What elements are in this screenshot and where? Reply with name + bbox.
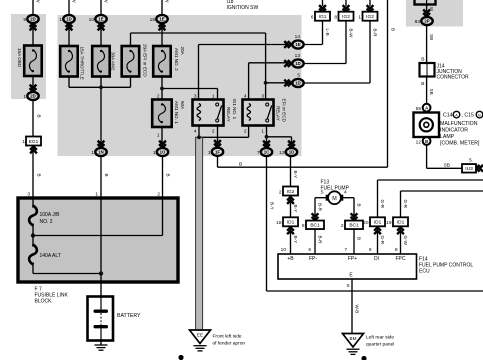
svg-text:1D: 1D [295,61,301,66]
svg-text:15A OBD: 15A OBD [17,48,22,68]
svg-text:55: 55 [416,106,422,112]
svg-text:1: 1 [59,17,62,23]
svg-text:3: 3 [27,192,30,198]
svg-text:EFI or ECD: EFI or ECD [281,99,286,123]
svg-text:1: 1 [23,94,26,100]
svg-text:2D: 2D [30,94,36,99]
svg-text:20A: 20A [180,47,185,56]
svg-text:1E: 1E [295,42,300,47]
svg-text:IG1: IG1 [319,14,327,20]
svg-text:ID1: ID1 [287,220,295,226]
svg-text:FP-: FP- [309,256,317,262]
svg-text:B: B [239,161,242,167]
svg-text:12: 12 [416,140,422,146]
svg-text:+B: +B [287,256,294,262]
svg-text:5: 5 [297,73,300,79]
svg-text:2: 2 [157,94,160,100]
svg-text:M: M [332,196,337,202]
svg-text:RELAY: RELAY [275,106,280,121]
svg-text:W: W [429,7,434,11]
svg-text:BM: BM [350,336,357,341]
svg-text:G-R: G-R [380,236,385,245]
svg-text:2: 2 [157,192,160,198]
svg-text:of fender apron: of fender apron [213,340,246,346]
svg-text:1E: 1E [98,17,103,22]
svg-text:6: 6 [311,15,314,21]
svg-text:NO. 2: NO. 2 [40,219,53,225]
svg-text:1N: 1N [98,150,104,155]
svg-text:1D: 1D [295,81,301,86]
svg-text:BC1: BC1 [349,223,359,229]
svg-text:1O: 1O [160,150,166,155]
svg-text:IG2: IG2 [342,14,350,20]
svg-text:1D: 1D [66,17,72,22]
svg-text:B-R: B-R [317,236,322,245]
svg-text:4: 4 [244,94,247,100]
svg-text:5: 5 [347,283,350,289]
svg-text:L-B: L-B [325,29,330,36]
svg-text:8: 8 [302,223,305,229]
svg-text:IU3: IU3 [465,166,473,172]
svg-text:B: B [421,81,424,87]
svg-text:BC1: BC1 [310,223,320,229]
svg-text:B: B [421,57,424,63]
svg-text:W: W [165,0,170,3]
svg-text:1D: 1D [289,150,295,155]
svg-text:1: 1 [22,139,25,145]
svg-text:B-R: B-R [372,29,377,38]
svg-text:1: 1 [261,129,264,135]
svg-text:C14: C14 [443,113,453,119]
svg-text:B: B [166,174,171,177]
svg-text:W-B: W-B [355,305,360,314]
svg-text:, C15: , C15 [462,113,475,119]
svg-text:4: 4 [344,189,347,195]
svg-text:IGNITION SW: IGNITION SW [227,5,259,11]
svg-text:B-R: B-R [317,203,322,212]
svg-text:G-W: G-W [403,236,408,246]
svg-text:CONNECTOR: CONNECTOR [437,75,470,81]
svg-text:B: B [478,112,481,117]
svg-text:2P: 2P [424,19,429,24]
svg-text:20A EFI or ECD: 20A EFI or ECD [143,44,148,77]
svg-text:EG1: EG1 [29,139,39,145]
svg-text:3: 3 [261,94,264,100]
svg-text:FP+: FP+ [348,256,357,262]
svg-text:7: 7 [344,247,347,253]
svg-text:2: 2 [341,223,344,229]
svg-text:1: 1 [95,192,98,198]
svg-text:10: 10 [281,247,287,253]
svg-text:A: A [425,106,428,111]
svg-text:6: 6 [308,247,311,253]
svg-text:18: 18 [276,220,282,226]
svg-text:15A THROTTLE: 15A THROTTLE [80,47,85,80]
svg-text:1: 1 [212,94,215,100]
svg-text:EE: EE [197,333,203,338]
svg-text:G-R: G-R [380,200,385,209]
svg-text:AM1 NO. 1: AM1 NO. 1 [174,101,179,124]
svg-text:30A AM2: 30A AM2 [111,52,116,71]
svg-text:1: 1 [157,133,160,139]
svg-text:W: W [104,0,109,3]
svg-text:IG1 NO. 1: IG1 NO. 1 [232,99,237,120]
svg-text:10: 10 [89,17,95,23]
svg-text:SB: SB [444,163,450,169]
svg-text:LAMP: LAMP [440,134,455,140]
svg-text:quarter panel: quarter panel [366,342,394,348]
svg-text:1: 1 [91,150,94,156]
svg-text:3: 3 [194,94,197,100]
svg-text:BLOCK: BLOCK [35,299,53,305]
svg-text:1E: 1E [159,17,164,22]
svg-text:1C: 1C [264,150,270,155]
svg-text:B: B [37,174,42,177]
svg-text:B: B [104,174,109,177]
svg-text:1: 1 [358,15,361,21]
svg-text:2: 2 [279,189,282,195]
svg-text:IG2: IG2 [287,189,295,195]
svg-text:SB: SB [429,34,434,40]
svg-text:B-W: B-W [348,29,353,39]
svg-text:13: 13 [295,53,301,59]
svg-text:SB: SB [429,89,434,95]
svg-text:83: 83 [415,19,421,25]
svg-text:IG2: IG2 [366,14,374,20]
svg-text:2D: 2D [30,17,36,22]
svg-text:B: B [356,204,361,207]
svg-text:AM1 NO. 2: AM1 NO. 2 [174,48,179,71]
svg-text:140A ALT: 140A ALT [40,253,61,259]
svg-text:Left rear side: Left rear side [366,335,394,341]
svg-text:B: B [37,115,42,118]
svg-text:2: 2 [244,129,247,135]
svg-text:1: 1 [208,150,211,156]
svg-text:Front left side: Front left side [213,334,242,340]
svg-text:B: B [425,139,428,144]
svg-text:B: B [391,28,396,31]
svg-text:20: 20 [363,220,369,226]
svg-text:W: W [36,0,41,3]
svg-text:W: W [72,0,77,3]
svg-text:RELAY: RELAY [226,107,231,122]
svg-text:13: 13 [279,150,285,156]
svg-text:G-R: G-R [403,200,408,209]
svg-text:19: 19 [386,220,392,226]
svg-text:[COMB. METER]: [COMB. METER] [440,141,480,147]
svg-text:B: B [356,237,361,240]
svg-text:1F: 1F [215,149,220,154]
svg-text:5: 5 [469,158,472,164]
svg-text:9: 9 [369,247,372,253]
svg-text:4: 4 [194,129,197,135]
svg-text:A: A [455,112,458,117]
svg-text:50A: 50A [180,101,185,110]
svg-text:INDICATOR: INDICATOR [440,128,468,134]
svg-text:B-Y: B-Y [293,236,298,244]
svg-text:1: 1 [153,150,156,156]
svg-text:5: 5 [321,189,324,195]
svg-text:14: 14 [295,34,301,40]
svg-text:7: 7 [257,150,260,156]
svg-text:100A J/B: 100A J/B [40,212,61,218]
svg-text:ID1: ID1 [397,220,405,226]
svg-text:ECU: ECU [419,269,430,275]
svg-text:FPC: FPC [396,256,406,262]
svg-text:DI: DI [374,256,379,262]
svg-text:B-Y: B-Y [293,205,298,213]
svg-text:MALFUNCTION: MALFUNCTION [440,121,478,127]
svg-text:B-Y: B-Y [293,171,298,179]
svg-text:9: 9 [23,17,26,23]
svg-text:8: 8 [334,15,337,21]
svg-text:2: 2 [212,129,215,135]
svg-text:ID1: ID1 [374,220,382,226]
svg-text:B-Y: B-Y [269,202,274,210]
svg-text:8: 8 [395,247,398,253]
svg-text:BATTERY: BATTERY [117,313,141,319]
svg-text:15: 15 [150,17,156,23]
